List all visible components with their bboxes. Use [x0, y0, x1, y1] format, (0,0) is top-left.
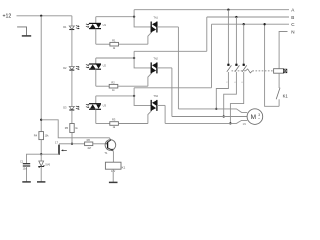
svg-text:17: 17	[55, 140, 59, 144]
node row 1 junction	[133, 16, 135, 18]
svg-text:Th1: Th1	[153, 16, 158, 20]
LED D1 (optocoupler input)	[69, 26, 74, 29]
wire contact feed	[227, 10, 229, 65]
wire triac Th2 MT1 lead	[157, 67, 172, 69]
wire coil to ground	[112, 169, 114, 182]
node base node	[71, 143, 73, 145]
svg-text:5V6: 5V6	[45, 162, 50, 166]
resistor R1	[110, 42, 119, 46]
wire phototriac U3 node line	[96, 95, 134, 97]
svg-text:D3: D3	[63, 106, 67, 110]
capacitor C1	[27, 154, 42, 163]
contact K1 main pole	[227, 64, 229, 66]
svg-text:M: M	[251, 114, 256, 121]
wire collector feed	[41, 120, 111, 140]
resistor R4 (left rail)	[39, 132, 44, 140]
LED D2 (optocoupler input)	[69, 67, 74, 70]
wire feeder to phase line row 3	[211, 24, 213, 88]
wire feeder riser row 3	[133, 88, 135, 96]
resistor R5 (LED rail)	[70, 124, 74, 133]
wire phototriac U1 top riser	[95, 17, 97, 24]
node row 2 junction	[133, 57, 135, 59]
wire feeder line row 2	[134, 50, 207, 52]
svg-text:Th2: Th2	[153, 57, 158, 61]
node junction on phase line x=243.7	[243, 23, 245, 25]
wire N stub	[279, 32, 287, 69]
svg-text:U2: U2	[103, 64, 107, 68]
opto-triac U3	[89, 103, 101, 105]
wire gate riser row 2	[148, 73, 151, 86]
svg-text:U1: U1	[103, 23, 107, 27]
wire motor lead 3	[165, 120, 247, 123]
wire coil to aux contact	[278, 73, 280, 88]
wire line B	[207, 16, 289, 18]
wire gate line row 2 left	[96, 85, 109, 87]
svg-text:D2: D2	[63, 66, 67, 70]
wire triac Th1 output drop	[177, 27, 179, 109]
wire phototriac U2 bottom riser	[95, 69, 97, 86]
svg-text:R3: R3	[112, 118, 116, 122]
svg-text:K1: K1	[122, 166, 126, 170]
triac Th3	[150, 100, 152, 111]
resistor R6 (base)	[72, 143, 85, 145]
wire motor lead 2	[172, 116, 247, 118]
wire contact feed	[235, 17, 237, 65]
resistor R3	[110, 122, 119, 126]
node junction on motor line	[229, 122, 231, 124]
node collector tap on +12 rail	[40, 119, 42, 121]
contact K1 main pole	[235, 64, 237, 66]
triac Th1	[150, 22, 152, 33]
svg-text:U3: U3	[103, 103, 107, 107]
wire triac Th3 MT2 drop	[134, 96, 151, 106]
svg-text:B: B	[291, 15, 294, 20]
node junction on phase line x=236.4	[235, 16, 237, 18]
wire gate line row 1 right	[119, 43, 148, 45]
opto-triac U1	[89, 22, 101, 24]
svg-text:C1: C1	[20, 160, 24, 164]
contactor coil K1	[274, 69, 284, 74]
contact K1 main pole	[243, 64, 245, 66]
svg-text:R5: R5	[65, 126, 69, 130]
svg-text:4k7: 4k7	[87, 147, 92, 150]
wire emitter to relay coil	[112, 150, 115, 162]
wire contact to motor line	[216, 72, 228, 109]
svg-text:R1: R1	[112, 38, 116, 42]
node junction on line C	[263, 23, 265, 25]
node junction on motor line	[215, 108, 217, 110]
relay coil K1	[105, 162, 121, 169]
wire triac Th2 MT2 drop	[134, 58, 151, 68]
svg-text:Th3: Th3	[153, 94, 158, 98]
ground (C1)	[22, 181, 31, 183]
node row 3 junction	[133, 95, 135, 97]
wire phototriac U3 top riser	[95, 96, 97, 104]
node +12 junction	[40, 15, 42, 17]
ground (near supply)	[17, 27, 26, 36]
wire phototriac U3 bottom riser	[95, 109, 97, 123]
LED D3 (optocoupler input)	[69, 107, 74, 110]
wire feeder line row 1	[134, 9, 289, 11]
wire feeder to phase line row 2	[206, 17, 208, 51]
svg-text:R4: R4	[34, 134, 38, 138]
wire triac Th1 MT2 drop	[134, 17, 151, 27]
wire gate riser row 1	[148, 33, 151, 45]
svg-text:R2: R2	[111, 80, 115, 84]
wire triac Th3 MT1 lead	[157, 104, 165, 106]
transistor T1	[105, 140, 116, 151]
wire gate line row 2 right	[118, 85, 148, 87]
svg-text:10u: 10u	[23, 168, 28, 171]
triac Th2	[150, 62, 152, 73]
wire LED rail to base node	[71, 133, 73, 144]
wire gate line row 3 left	[96, 123, 110, 125]
ground (zener)	[37, 181, 45, 183]
wire triac Th1 MT1 lead	[157, 26, 179, 28]
node junction on phase line x=228.4	[227, 9, 229, 11]
wire contact feed	[243, 24, 245, 64]
wire motor lead 1	[178, 109, 247, 113]
zener diode D4	[40, 154, 42, 161]
wire LED rail segments	[71, 30, 73, 67]
wire contact to motor line	[224, 72, 237, 117]
resistor R2	[109, 84, 118, 88]
wire triac Th2 output drop	[171, 68, 173, 117]
wire left rail (+12 down to R4)	[40, 16, 42, 132]
svg-text:N: N	[291, 29, 294, 34]
wire gate line row 3 right	[118, 123, 147, 125]
ground (relay)	[109, 181, 118, 183]
svg-text:+12: +12	[3, 14, 12, 20]
wire reference node to input column	[41, 153, 59, 155]
svg-text:D1: D1	[63, 25, 67, 29]
wire phototriac U1 node line	[96, 16, 134, 18]
node reference node	[40, 153, 42, 155]
wire feeder riser row 1	[133, 10, 135, 17]
svg-text:K1: K1	[283, 94, 289, 99]
wire feeder line row 3	[134, 87, 211, 89]
wire line C	[212, 23, 290, 25]
wire gate line row 1 left	[96, 43, 110, 45]
wire phototriac U1 bottom riser	[95, 29, 97, 45]
wire feeder riser row 2	[133, 51, 135, 58]
wire LED rail top bend	[71, 16, 73, 26]
wire phototriac U2 top riser	[95, 58, 97, 64]
wire aux contact return to line C	[265, 24, 280, 106]
opto-triac U2	[89, 63, 101, 65]
motor M1	[247, 109, 263, 125]
svg-text:R6: R6	[87, 138, 91, 142]
wire gate riser row 3	[148, 111, 151, 124]
wire phototriac U2 node line	[96, 57, 134, 59]
mechanical link (dashed)	[232, 70, 246, 72]
wire +12 rail	[17, 15, 72, 17]
wire rail R4 to reference node	[40, 140, 42, 155]
contact K1 aux	[276, 88, 280, 100]
wire triac Th3 output drop	[164, 105, 166, 123]
wire contact to motor line	[230, 72, 243, 123]
node junction on motor line	[223, 115, 225, 117]
